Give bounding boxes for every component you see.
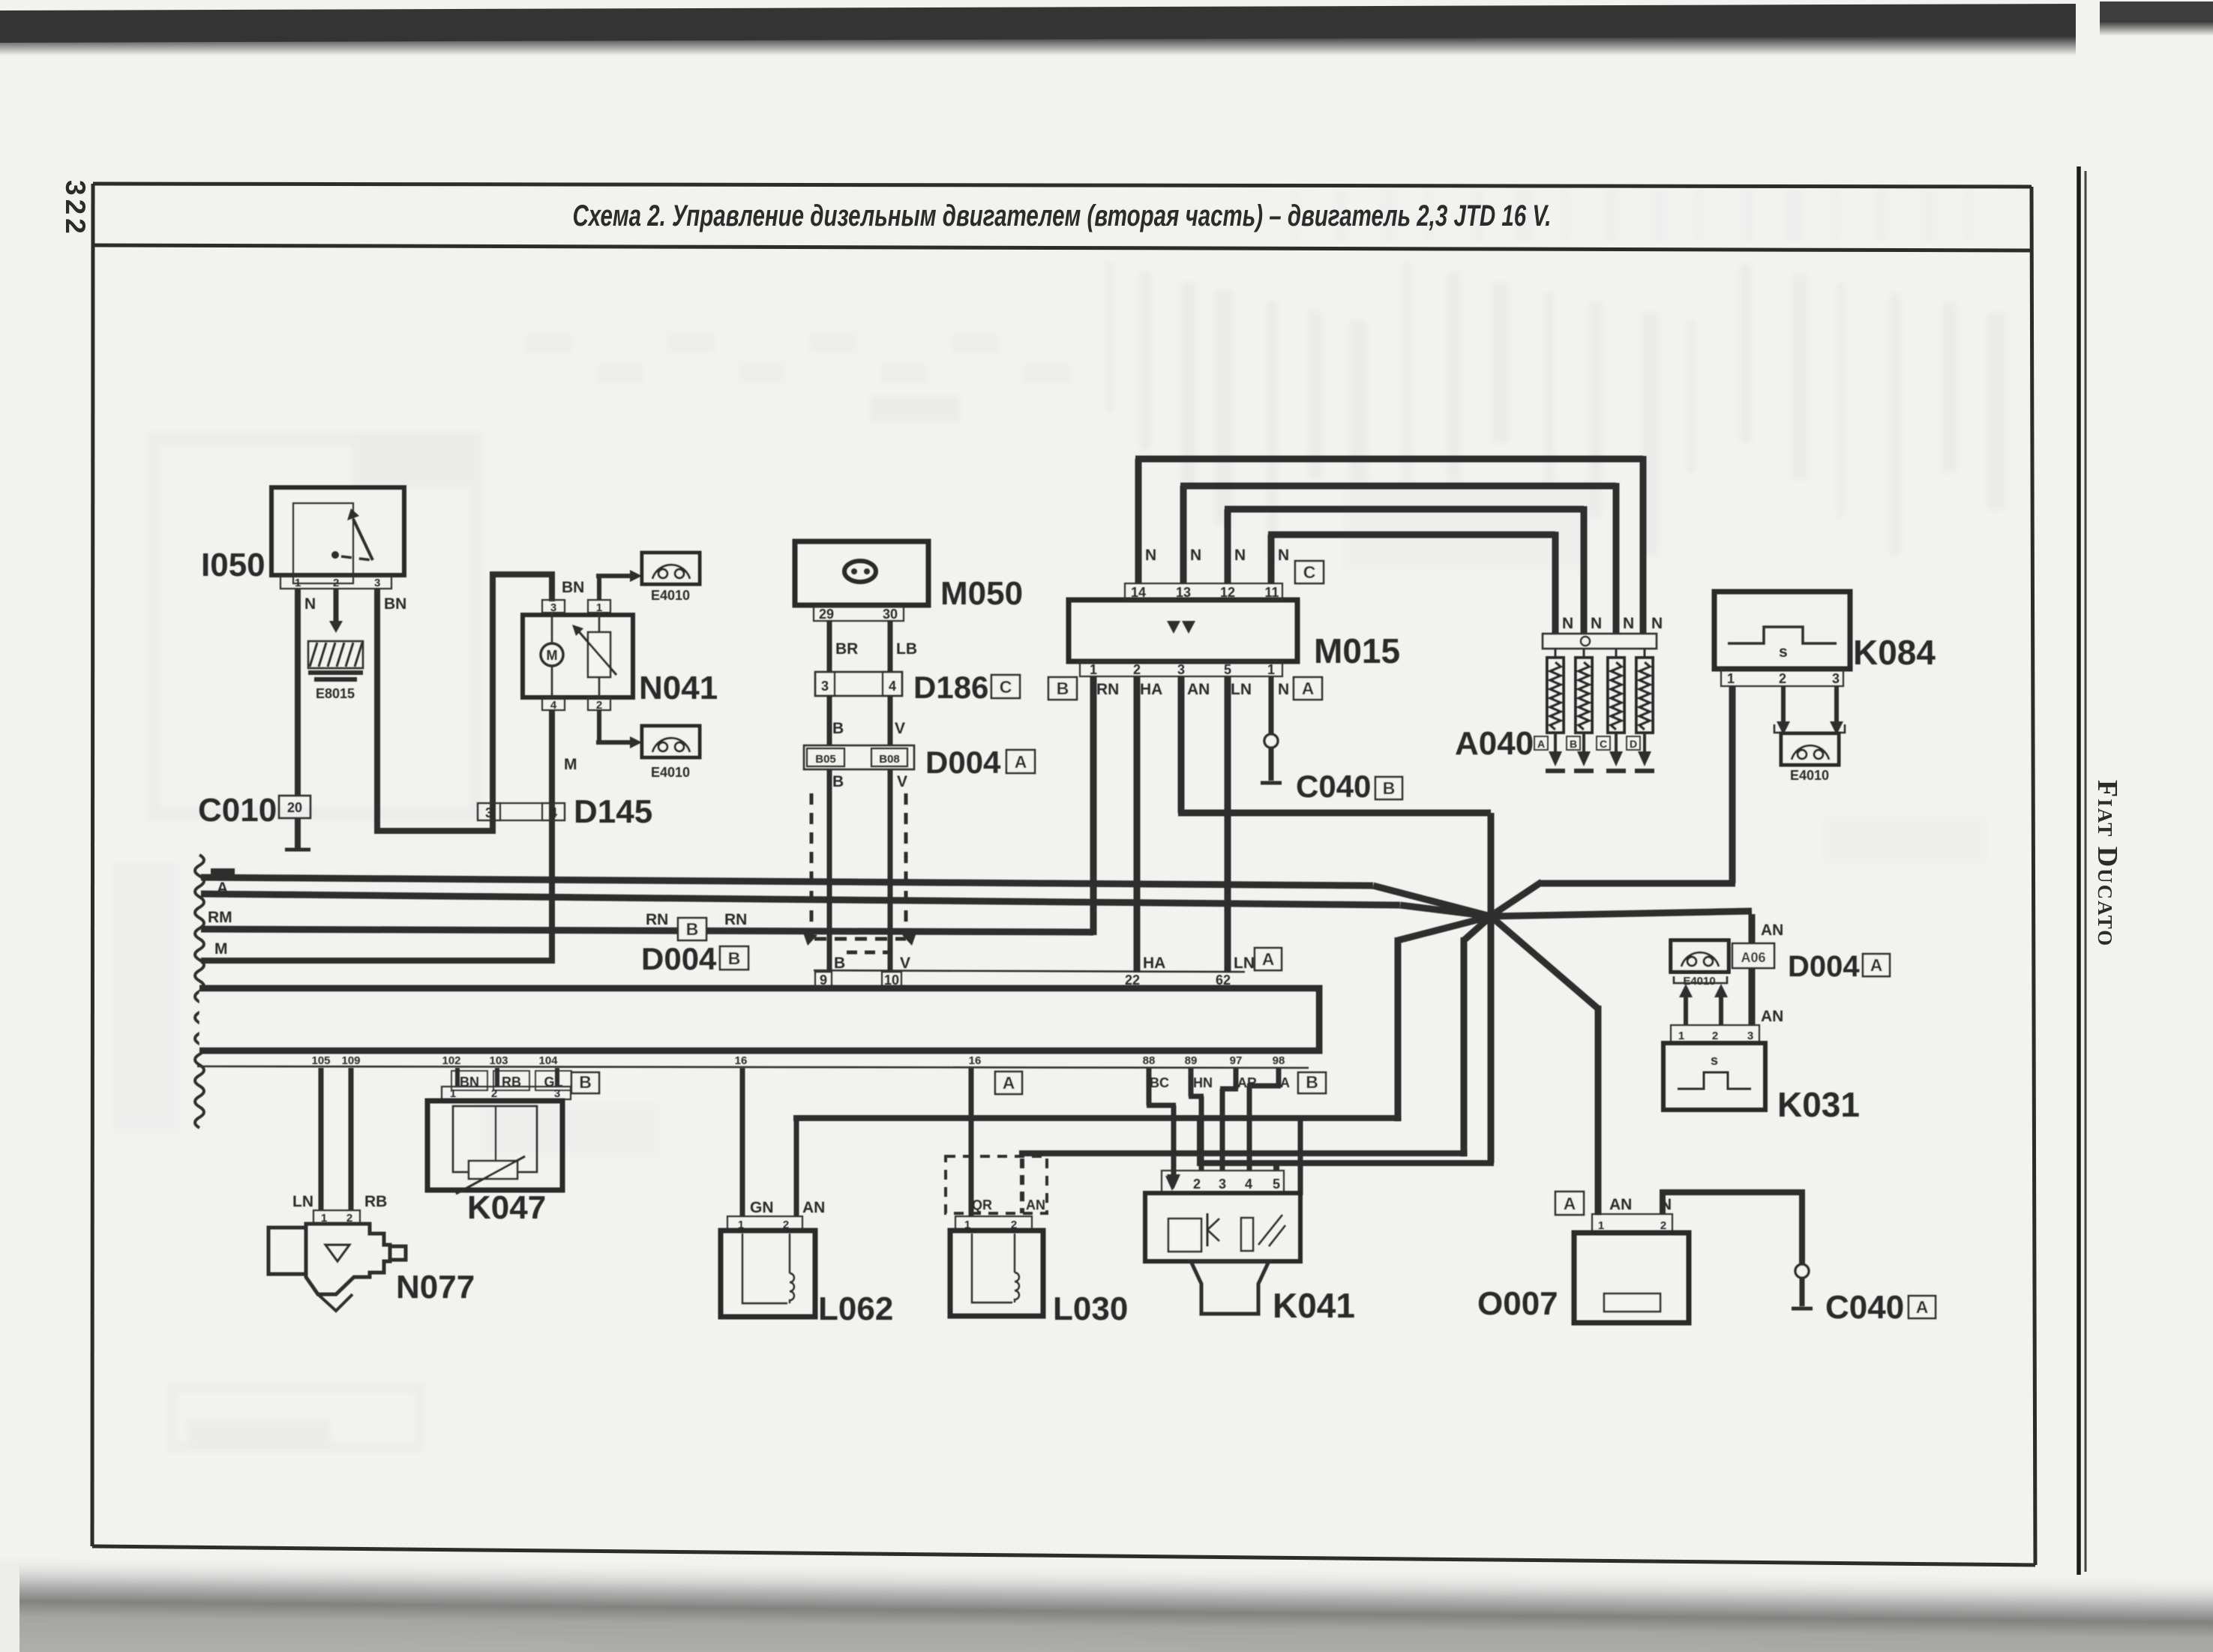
- svg-text:13: 13: [1176, 585, 1191, 600]
- svg-text:C: C: [1000, 677, 1012, 697]
- L030 pin2 wire to junction: [1019, 1150, 1025, 1156]
- wire N M015 pin1b to C040 B stub: [1269, 676, 1274, 734]
- svg-text:N: N: [1562, 615, 1573, 632]
- wire AN junction to K031 pin3: [1491, 911, 1752, 916]
- svg-text:3: 3: [1177, 662, 1185, 677]
- wire RN M015 pin1 down to bus wire 3: [1090, 676, 1097, 935]
- wire N M015 pin14 to glow plug D: [1135, 459, 1142, 583]
- wire 1 diagonal into junction: [1373, 886, 1491, 916]
- svg-text:RN: RN: [1096, 681, 1119, 698]
- injection pump control M015: [1069, 600, 1297, 661]
- wire N from I050 pin1 to C010: [295, 589, 301, 796]
- wire BN from I050 pin3 to N041 via D145: [374, 589, 380, 831]
- svg-text:A: A: [1015, 752, 1027, 772]
- wire M from N041 pin4 down through D145: [549, 710, 555, 964]
- fuel pressure regulator K041: [1162, 1171, 1284, 1193]
- bus wire 1 to junction: [201, 877, 1373, 886]
- wire AN M015 pin3 right to junction: [1178, 676, 1185, 813]
- svg-text:N: N: [304, 595, 316, 613]
- svg-text:322: 322: [60, 180, 91, 238]
- svg-text:A: A: [1870, 955, 1883, 975]
- svg-text:3: 3: [821, 679, 829, 694]
- svg-text:A: A: [1916, 1297, 1929, 1317]
- svg-text:K031: K031: [1777, 1085, 1860, 1124]
- svg-text:LB: LB: [896, 640, 917, 658]
- svg-text:K047: K047: [467, 1189, 546, 1226]
- svg-text:GN: GN: [750, 1199, 774, 1216]
- svg-text:LN: LN: [1231, 681, 1252, 698]
- svg-text:98: 98: [1273, 1054, 1285, 1067]
- svg-text:RM: RM: [208, 909, 232, 926]
- tick on wire 1 start: [211, 868, 235, 877]
- svg-text:3: 3: [485, 805, 493, 820]
- svg-text:V: V: [897, 773, 907, 790]
- svg-text:4: 4: [889, 679, 896, 694]
- wire N M015 pin13 to glow plug C: [1180, 486, 1187, 583]
- svg-text:O007: O007: [1477, 1285, 1558, 1322]
- svg-text:B: B: [686, 919, 699, 939]
- svg-text:A06: A06: [1741, 950, 1765, 965]
- svg-text:3: 3: [1219, 1177, 1226, 1192]
- N041 pin1 arrow to instrument E4010 (top): [597, 576, 601, 600]
- wire LN M015 pin5 down to ECU pin 62: [1225, 676, 1231, 972]
- svg-text:L030: L030: [1053, 1291, 1128, 1327]
- ECU connector strip bottom: [197, 1066, 1309, 1068]
- svg-text:HN: HN: [1193, 1075, 1213, 1090]
- svg-text:QR: QR: [972, 1198, 992, 1213]
- svg-text:N: N: [1623, 615, 1634, 632]
- svg-text:Fiat Ducato: Fiat Ducato: [2092, 780, 2123, 947]
- svg-text:N: N: [1278, 681, 1289, 698]
- svg-text:Схема 2. Управление дизельным: Схема 2. Управление дизельным двигателем…: [573, 199, 1552, 232]
- N041 pin2 arrow to instrument E4010 (bottom): [597, 710, 601, 742]
- svg-text:E4010: E4010: [1683, 975, 1715, 988]
- svg-text:D: D: [1630, 738, 1637, 750]
- ECU connector strip top (pins 9 10 22 62): [814, 970, 1245, 972]
- svg-text:C: C: [1600, 738, 1607, 750]
- wire V to ECU pin 10: [888, 769, 893, 970]
- svg-text:LN: LN: [292, 1193, 313, 1210]
- svg-text:109: 109: [341, 1054, 360, 1067]
- junction to L030 wire: [1464, 916, 1491, 940]
- svg-text:2: 2: [1660, 1219, 1666, 1232]
- starter motor N077: [319, 1068, 324, 1210]
- connector D004 A pins B05 B08: [804, 745, 914, 769]
- svg-text:2: 2: [1712, 1030, 1718, 1042]
- K084 pin1 wire to junction: [1729, 686, 1736, 883]
- svg-text:4: 4: [550, 805, 557, 820]
- svg-text:3: 3: [550, 601, 556, 614]
- connector C010 pin 20: [279, 796, 310, 818]
- harness continuation zigzag: [195, 855, 204, 1128]
- svg-text:A: A: [1262, 949, 1275, 969]
- svg-text:B: B: [1570, 738, 1577, 750]
- svg-text:1: 1: [1598, 1219, 1604, 1232]
- svg-text:2: 2: [1133, 662, 1141, 677]
- svg-text:D004: D004: [925, 745, 1001, 780]
- wire N M015 pin11 to glow plug A: [1268, 535, 1275, 583]
- svg-text:B: B: [832, 720, 844, 737]
- wire BC ECU pin88 to K041 pin1: [1147, 1068, 1152, 1105]
- svg-text:RB: RB: [364, 1193, 387, 1210]
- svg-text:30: 30: [883, 607, 898, 622]
- injector / solenoid L062: [740, 1068, 745, 1216]
- svg-text:N: N: [1234, 547, 1246, 564]
- svg-text:E4010: E4010: [1790, 768, 1829, 783]
- svg-text:D186: D186: [913, 670, 988, 705]
- wire AN vertical into junction: [1488, 813, 1495, 916]
- junction down to K041 pin5 feed: [1488, 916, 1495, 1163]
- svg-text:L062: L062: [818, 1291, 893, 1327]
- svg-text:M: M: [547, 648, 558, 663]
- svg-text:B08: B08: [879, 753, 900, 766]
- svg-text:16: 16: [969, 1054, 982, 1067]
- svg-text:2: 2: [596, 699, 602, 712]
- svg-text:89: 89: [1185, 1054, 1198, 1067]
- svg-text:1: 1: [1090, 662, 1097, 677]
- svg-text:B: B: [728, 949, 741, 968]
- M015 bottom pins 1 2 3 5 1: [1080, 661, 1282, 676]
- svg-text:104: 104: [538, 1054, 558, 1067]
- svg-text:A: A: [1302, 679, 1315, 698]
- resistor unit K047: [451, 1071, 487, 1090]
- svg-text:N: N: [1190, 547, 1201, 564]
- svg-text:AN: AN: [1187, 681, 1210, 698]
- svg-text:D145: D145: [574, 793, 652, 830]
- svg-text:1: 1: [295, 577, 301, 589]
- svg-text:N041: N041: [639, 670, 718, 706]
- svg-text:A: A: [1280, 1075, 1290, 1090]
- svg-text:1: 1: [1678, 1030, 1684, 1042]
- svg-text:N077: N077: [396, 1269, 475, 1306]
- svg-text:B: B: [832, 773, 844, 790]
- svg-text:HA: HA: [1140, 681, 1162, 698]
- svg-text:B: B: [579, 1072, 592, 1092]
- svg-text:D004: D004: [641, 941, 717, 976]
- svg-text:1: 1: [1727, 671, 1735, 686]
- svg-text:B: B: [1383, 778, 1396, 798]
- junction feed into K041 pin5: [1273, 1163, 1279, 1171]
- svg-text:C: C: [1303, 562, 1316, 582]
- svg-text:102: 102: [442, 1054, 460, 1067]
- svg-text:N: N: [1145, 547, 1156, 564]
- wire N M015 pin12 to glow plug B: [1225, 509, 1231, 583]
- junction to O007 pin 1: [1491, 916, 1598, 1009]
- glow plug control unit K084: [1714, 592, 1850, 669]
- svg-text:LN: LN: [1234, 955, 1255, 972]
- svg-text:103: 103: [489, 1054, 508, 1067]
- wire 2 diagonal into junction: [1400, 905, 1491, 916]
- svg-text:s: s: [1779, 643, 1788, 661]
- svg-text:BR: BR: [835, 640, 858, 658]
- svg-text:A: A: [1564, 1194, 1576, 1213]
- svg-text:BN: BN: [384, 595, 406, 613]
- I050 pins strip 1 2 3: [280, 576, 391, 589]
- injector / solenoid L030: [969, 1068, 974, 1216]
- wire HN ECU pin89 to K041 pin2: [1189, 1068, 1194, 1096]
- svg-text:AN: AN: [1761, 1008, 1783, 1025]
- connector A06 / D004 A: [1732, 943, 1774, 968]
- fuel pump/sender N041: [542, 600, 565, 613]
- O007 pin2 wire to C040 A: [1660, 1192, 1666, 1214]
- svg-text:29: 29: [819, 607, 834, 622]
- svg-text:97: 97: [1230, 1054, 1243, 1067]
- wire BR: [827, 621, 832, 672]
- svg-text:4: 4: [1245, 1177, 1252, 1192]
- svg-text:s: s: [1711, 1053, 1718, 1068]
- relay I050: [271, 487, 404, 575]
- svg-text:2: 2: [491, 1087, 497, 1100]
- svg-text:3: 3: [374, 577, 380, 589]
- svg-text:B: B: [834, 955, 845, 972]
- svg-text:11: 11: [1264, 585, 1279, 600]
- relay K031: [1671, 940, 1729, 972]
- svg-text:14: 14: [1131, 585, 1146, 600]
- svg-text:A: A: [1003, 1073, 1015, 1093]
- wire B (solid part) to ECU pin 9: [827, 769, 832, 970]
- arrow I050 pin2 to ground E8015: [334, 589, 339, 621]
- junction to L062 wire: [1398, 916, 1491, 940]
- svg-text:3: 3: [1747, 1030, 1753, 1042]
- svg-text:BN: BN: [562, 579, 584, 596]
- svg-text:E4010: E4010: [651, 765, 690, 780]
- svg-text:N: N: [1651, 615, 1663, 632]
- connector D145 pins 3 4: [478, 803, 565, 820]
- top black bar: [0, 4, 2076, 43]
- svg-text:RN: RN: [646, 911, 668, 928]
- svg-text:2: 2: [333, 577, 339, 589]
- dashed harness section around B/V wires: [810, 793, 814, 937]
- svg-text:C040: C040: [1825, 1289, 1904, 1326]
- svg-text:5: 5: [1273, 1177, 1280, 1192]
- svg-text:M050: M050: [940, 575, 1023, 612]
- svg-text:C010: C010: [198, 792, 277, 829]
- svg-text:N: N: [1591, 615, 1602, 632]
- svg-text:88: 88: [1143, 1054, 1156, 1067]
- ECU unit body: [199, 988, 1319, 1051]
- svg-text:B05: B05: [815, 753, 836, 766]
- svg-text:V: V: [900, 955, 910, 972]
- wire AR ECU pin97 to K041 pin3: [1234, 1068, 1239, 1089]
- svg-text:5: 5: [1224, 662, 1231, 677]
- svg-text:3: 3: [1832, 671, 1840, 686]
- svg-text:E4010: E4010: [651, 588, 690, 603]
- svg-text:4: 4: [550, 699, 557, 712]
- svg-text:20: 20: [287, 800, 302, 815]
- svg-text:V: V: [895, 720, 905, 737]
- branch to K041 case: [1298, 1118, 1303, 1195]
- ground E8015: [308, 641, 363, 668]
- svg-text:3: 3: [554, 1087, 560, 1100]
- svg-text:AN: AN: [1609, 1196, 1632, 1213]
- svg-text:A: A: [1537, 738, 1545, 750]
- wire HA M015 pin2 down to ECU pin 22: [1134, 676, 1141, 972]
- svg-text:B: B: [1306, 1072, 1318, 1092]
- svg-text:B: B: [1057, 679, 1069, 698]
- svg-text:2: 2: [1779, 671, 1786, 686]
- svg-text:K084: K084: [1853, 633, 1936, 672]
- diagram frame border: [93, 184, 2032, 187]
- lambda sensor O007: [1555, 1192, 1584, 1215]
- svg-text:E8015: E8015: [316, 686, 355, 701]
- svg-text:HA: HA: [1143, 955, 1165, 972]
- svg-text:M015: M015: [1314, 631, 1400, 670]
- svg-text:A040: A040: [1455, 725, 1534, 762]
- svg-text:M: M: [214, 940, 228, 958]
- svg-text:D004: D004: [1788, 950, 1860, 983]
- book spine double line: [2078, 172, 2088, 1567]
- svg-text:105: 105: [311, 1054, 330, 1067]
- glow plugs A040: [1543, 634, 1657, 649]
- svg-text:C040: C040: [1296, 769, 1371, 804]
- svg-text:1: 1: [1267, 662, 1275, 677]
- svg-text:12: 12: [1220, 585, 1235, 600]
- svg-text:M: M: [564, 756, 577, 773]
- svg-text:AN: AN: [802, 1199, 825, 1216]
- svg-text:1: 1: [450, 1087, 456, 1100]
- svg-text:RN: RN: [724, 911, 747, 928]
- wire LB: [888, 621, 893, 672]
- svg-text:I050: I050: [201, 547, 265, 583]
- svg-text:BC: BC: [1150, 1075, 1169, 1090]
- svg-text:2: 2: [1193, 1177, 1201, 1192]
- svg-text:16: 16: [735, 1054, 748, 1067]
- svg-text:AN: AN: [1026, 1198, 1045, 1213]
- M015 top pins 14 13 12 11: [1125, 583, 1282, 600]
- L062 pin2 wire to junction: [793, 1115, 799, 1121]
- svg-text:K041: K041: [1273, 1286, 1355, 1325]
- wire A ECU pin98 to K041 pin4: [1276, 1068, 1282, 1086]
- svg-text:1: 1: [596, 601, 602, 614]
- bottom page shadow: [0, 1554, 2213, 1652]
- M050 pins 29 30: [814, 606, 904, 621]
- diagnostic socket M050: [795, 541, 928, 605]
- svg-text:AN: AN: [1761, 922, 1783, 939]
- svg-text:N: N: [1278, 547, 1289, 564]
- K084 pin2 pin3 arrows to E4010: [1781, 686, 1786, 721]
- connector D186 pins 3 4: [815, 672, 902, 696]
